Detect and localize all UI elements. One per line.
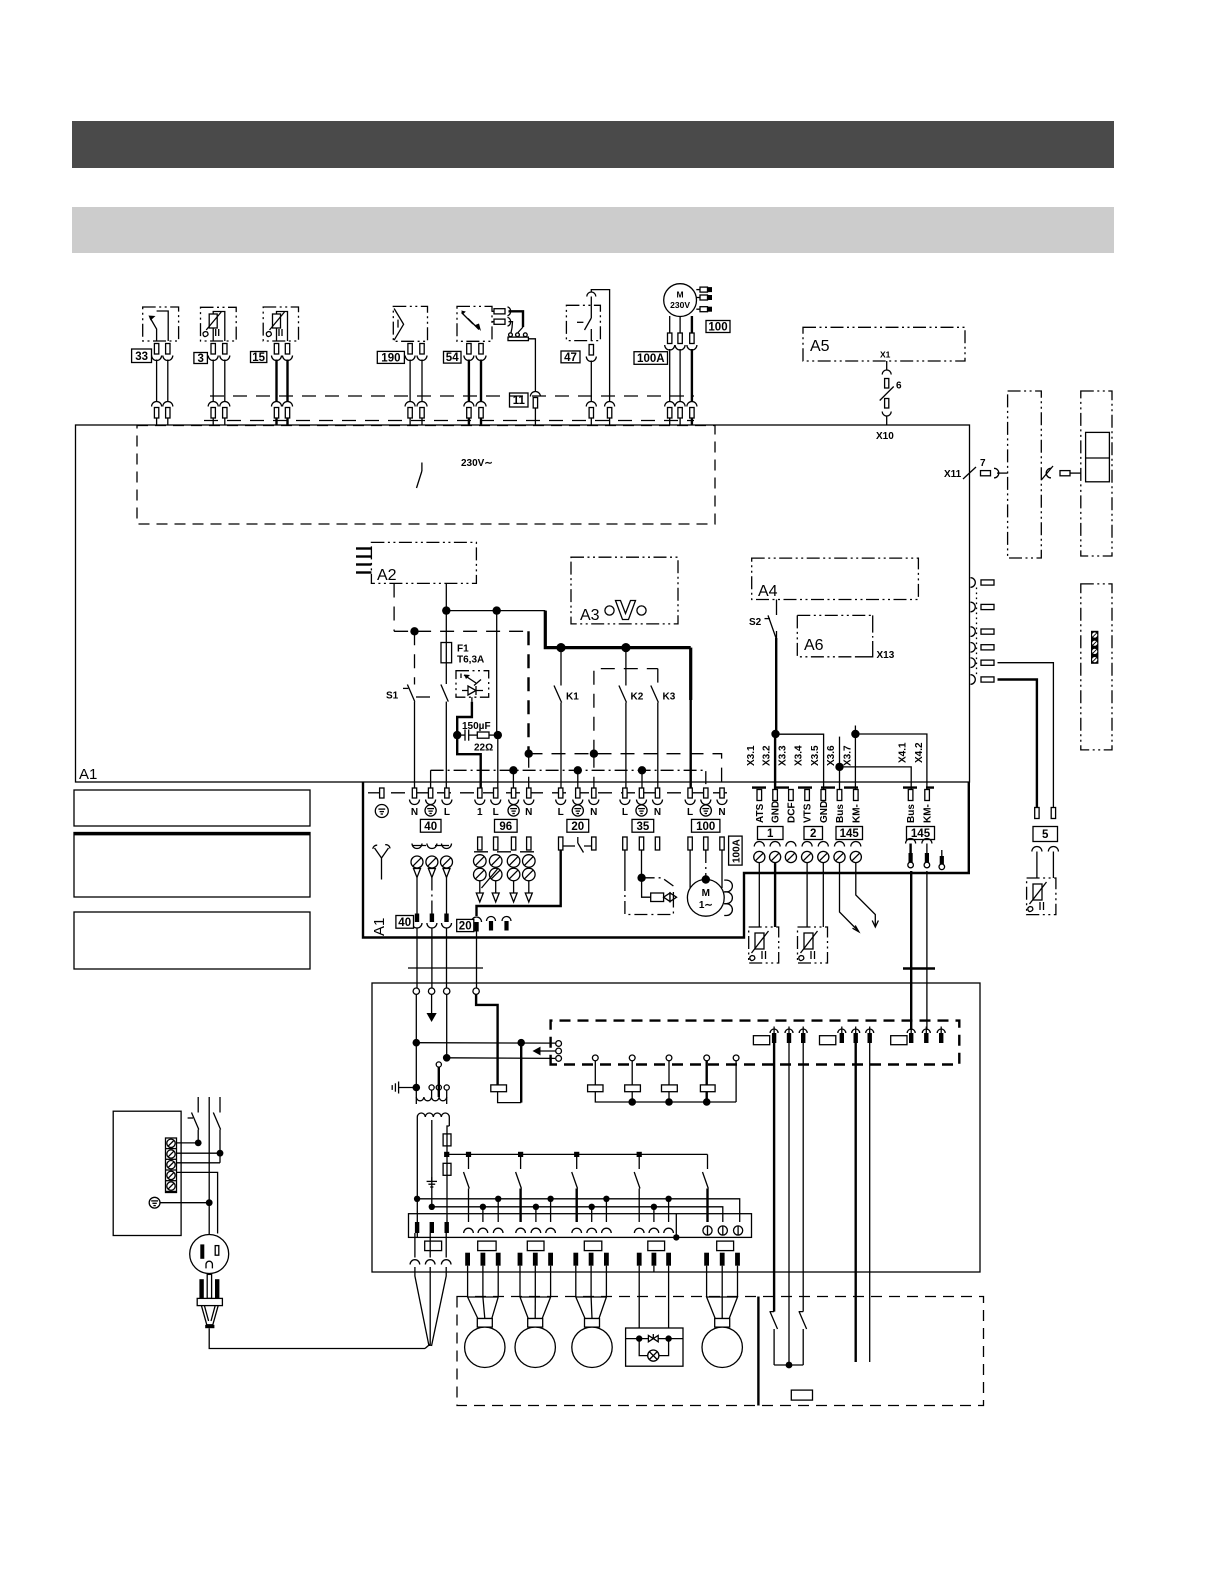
svg-text:230V∼: 230V∼ <box>461 458 493 469</box>
module A4 <box>752 558 919 600</box>
strip left pins <box>415 1222 449 1233</box>
casing boundary dashed lines <box>210 395 694 397</box>
svg-text:7: 7 <box>980 458 986 469</box>
S2 to X3.2 wire <box>775 638 776 791</box>
junction box screws <box>166 1138 177 1193</box>
relay coil A <box>491 1043 521 1103</box>
svg-text:S2: S2 <box>749 617 762 628</box>
svg-text:X3.6: X3.6 <box>826 745 837 766</box>
svg-text:T6,3A: T6,3A <box>457 655 484 666</box>
lower board input terminals <box>413 988 479 994</box>
svg-text:X10: X10 <box>876 431 894 442</box>
connector box 145 right <box>907 827 935 840</box>
wire A2 to F1 line <box>445 584 447 611</box>
external contact b <box>799 1312 807 1365</box>
terminal 20 wire thick <box>476 994 498 1085</box>
svg-text:GND: GND <box>819 801 830 823</box>
pump 1 motor <box>465 1327 505 1367</box>
KM arrow out <box>856 863 879 927</box>
lower connector 20 <box>472 917 482 991</box>
svg-text:N: N <box>654 807 661 818</box>
bus connector group 2 <box>820 1027 874 1045</box>
connector pins 190 <box>405 344 427 426</box>
pump 4 funnel <box>707 1266 738 1327</box>
remote box 1 <box>1008 391 1042 558</box>
KM line down <box>926 871 928 1030</box>
label 20 lower <box>457 919 474 931</box>
svg-text:6: 6 <box>896 381 902 392</box>
lower relay contact 2 <box>516 1154 522 1222</box>
module A3 with logo <box>571 557 678 624</box>
L96 wire <box>497 611 498 788</box>
svg-text:3: 3 <box>197 353 203 365</box>
mains plug <box>197 1274 222 1328</box>
X6 edge connectors <box>971 578 995 685</box>
RC snubber 150uF 22ohm <box>457 702 498 788</box>
svg-text:DCF: DCF <box>786 802 797 823</box>
relay contact K3 <box>651 669 659 788</box>
sensor box 3 (NTC temperature sensor) <box>201 307 237 341</box>
svg-text:150µF: 150µF <box>462 721 491 732</box>
group 100 pump motor <box>687 837 724 916</box>
module A2 <box>356 542 476 584</box>
lower relay contact 4 <box>634 1154 640 1222</box>
strip cups <box>464 1228 674 1233</box>
heavy dashed vertical to N96 <box>527 631 530 788</box>
legend box 3 <box>74 912 310 969</box>
K2-K3 mechanical linkage dashed <box>594 669 658 788</box>
svg-text:L: L <box>622 807 628 818</box>
lower board box <box>372 983 980 1272</box>
fan motor M 230V <box>664 284 712 317</box>
sensor terminal cups and screws <box>754 842 862 863</box>
sensor box 15 (NTC temperature sensor) <box>263 307 298 341</box>
S1 mechanical link dashed <box>416 696 438 698</box>
terminal group 35 top <box>620 788 663 818</box>
svg-text:100: 100 <box>696 821 715 833</box>
X4 connector pin row <box>903 788 934 801</box>
terminal group 40 top <box>410 788 452 818</box>
terminal 40-2 wire with arrow <box>427 994 437 1022</box>
svg-text:L: L <box>493 807 499 818</box>
mains socket face <box>190 1235 229 1274</box>
wire edge row6 to conn 5 thick <box>998 680 1037 808</box>
net to changeover contact bottom <box>447 1057 555 1060</box>
svg-text:X1: X1 <box>880 350 891 360</box>
Bus line down <box>910 871 912 1030</box>
controller box A5 <box>803 327 965 361</box>
link bar <box>774 1364 803 1366</box>
terminal group 100 top <box>685 788 727 818</box>
triac module <box>456 671 489 702</box>
svg-text:N: N <box>411 807 418 818</box>
box 20 <box>567 819 589 832</box>
svg-text:K1: K1 <box>566 692 579 703</box>
spark plug spade connectors <box>492 307 511 326</box>
X3.5 branch <box>776 734 824 791</box>
outdoor sensor box (AF) <box>749 927 779 963</box>
box 35 <box>632 819 654 832</box>
connector box 2 <box>804 827 823 840</box>
label 15 <box>251 352 267 363</box>
X4.1 X4.2 labels <box>898 742 926 763</box>
spare pins <box>487 917 512 931</box>
svg-text:100A: 100A <box>637 353 665 365</box>
terminal name labels ATS GND DCF VTS GND Bus KM <box>755 801 863 823</box>
external module rect <box>791 1390 812 1400</box>
lower relay contact 3 <box>572 1154 578 1222</box>
X11 connector <box>963 467 1008 479</box>
svg-text:20: 20 <box>571 821 584 833</box>
bottom edge pins <box>465 1253 740 1266</box>
svg-text:Bus: Bus <box>835 804 846 823</box>
pump 2 funnel <box>520 1266 551 1327</box>
svg-text:KM-: KM- <box>923 804 934 823</box>
bottom external dashed box <box>457 1297 984 1406</box>
svg-text:54: 54 <box>446 352 459 364</box>
terminal group 20 top <box>556 788 599 818</box>
relay coil C <box>625 1061 669 1102</box>
230V~ dashed enclosure <box>137 426 715 525</box>
svg-text:X4.1: X4.1 <box>898 742 909 763</box>
right 145 cups and pins <box>906 839 945 870</box>
header dark bar <box>72 121 1114 168</box>
legend box 1 <box>74 790 310 826</box>
group 96 output terminals <box>474 837 536 902</box>
label 54 <box>444 351 462 363</box>
relay dashed box <box>551 1021 960 1066</box>
changeover relay contact <box>533 1041 562 1062</box>
earth collector Y <box>373 845 390 880</box>
fuse F1 T6,3A <box>441 611 452 684</box>
header light bar <box>72 207 1114 253</box>
svg-text:N: N <box>590 807 597 818</box>
lower relay contact 5 <box>703 1154 709 1222</box>
svg-text:K2: K2 <box>631 692 644 703</box>
connector pins 47 <box>586 290 614 425</box>
junction box earth <box>149 1197 160 1208</box>
ignition box 54 <box>457 306 492 341</box>
distribution row 1 <box>417 1199 740 1222</box>
mains switch contact 1 <box>188 1113 199 1143</box>
L-feed horizontal net <box>446 610 545 612</box>
chassis ground left <box>392 1082 416 1094</box>
label 11 <box>510 393 529 407</box>
fuse 2 <box>443 1154 451 1222</box>
switch S1 <box>403 631 415 788</box>
terminal group 96 top <box>475 788 534 818</box>
module A6 with X13 <box>797 615 872 656</box>
switch S2 <box>765 600 777 641</box>
cord fan to sockets <box>415 1267 446 1349</box>
svg-text:KM-: KM- <box>851 804 862 823</box>
svg-text:VTS: VTS <box>803 803 814 823</box>
svg-text:M: M <box>702 888 710 899</box>
inner strip junction <box>673 1214 679 1241</box>
earth tap wire <box>427 1120 437 1207</box>
row drop wires <box>483 1199 669 1222</box>
crossing tick <box>408 967 483 969</box>
PE drop wires <box>513 770 642 788</box>
label 40 lower <box>396 916 414 929</box>
svg-text:190: 190 <box>381 352 400 364</box>
motor connector pins <box>665 316 697 425</box>
fuse 1 <box>443 1126 451 1154</box>
svg-text:N: N <box>718 807 725 818</box>
svg-text:X3.2: X3.2 <box>762 745 773 766</box>
group 20 output with switch <box>477 837 597 916</box>
group 40 output terminals <box>411 844 453 914</box>
left output sockets <box>410 1233 451 1265</box>
remote box 2 with display <box>1081 391 1112 556</box>
Bus arrow out <box>840 863 859 932</box>
hot water sensor box <box>1027 878 1056 915</box>
transformer primary <box>416 1062 449 1104</box>
crossing tick <box>903 967 935 969</box>
svg-text:A4: A4 <box>758 583 778 600</box>
100A rotated label <box>729 836 743 865</box>
lower relay contact 1 <box>464 1154 470 1222</box>
svg-text:L: L <box>687 807 693 818</box>
connector X1-X10 stack <box>880 361 894 425</box>
svg-text:1: 1 <box>767 828 774 840</box>
svg-text:11: 11 <box>513 395 526 407</box>
group 35 gas valve <box>623 837 677 915</box>
connector 11 <box>530 392 540 426</box>
svg-text:100A: 100A <box>732 839 743 863</box>
connector 5 cups <box>1032 847 1059 879</box>
svg-text:15: 15 <box>252 352 265 364</box>
sensor box 33 (flow switch) <box>143 307 179 341</box>
PE dash-dot bus <box>431 770 706 788</box>
strip circle terminals <box>703 1226 743 1235</box>
svg-text:X11: X11 <box>944 469 962 480</box>
label 33 <box>132 349 152 363</box>
connector pins 15 <box>272 344 293 426</box>
remote box 3 with terminal strip <box>1081 584 1112 750</box>
svg-text:A1: A1 <box>79 766 97 783</box>
wire edge row5 to conn 5 <box>998 663 1054 807</box>
svg-text:N: N <box>525 807 532 818</box>
bus connector group 3 <box>891 1027 946 1045</box>
svg-text:20: 20 <box>459 921 472 933</box>
legend box 2 <box>74 833 310 898</box>
junction wires <box>177 1143 221 1234</box>
box 96 <box>495 819 518 832</box>
svg-text:A3: A3 <box>580 607 600 624</box>
relay coil B <box>588 1061 633 1102</box>
dashed wire from A2 <box>394 584 528 632</box>
connector box 145 left <box>836 827 863 840</box>
box 40 <box>420 819 441 832</box>
flow sensor box (VF) <box>798 927 828 963</box>
lower connector 40 <box>412 914 452 992</box>
mains feed stubs <box>198 1097 220 1235</box>
neutral dashed bus <box>529 754 722 788</box>
thick main L feed to K contacts <box>545 611 690 788</box>
terminal 40-1 wire <box>415 994 417 1087</box>
svg-text:X3.4: X3.4 <box>794 745 805 766</box>
svg-text:100: 100 <box>708 322 727 334</box>
svg-text:40: 40 <box>398 917 411 929</box>
wire GND to sensor thick <box>774 863 776 927</box>
mains switch contact 2 <box>213 1113 220 1163</box>
svg-text:35: 35 <box>637 821 650 833</box>
svg-text:L: L <box>558 807 564 818</box>
X3.1..X3.7 labels <box>746 745 854 766</box>
relay coil drive circles <box>592 1055 739 1061</box>
pump 2 motor <box>515 1327 555 1367</box>
svg-text:2: 2 <box>810 828 816 840</box>
svg-text:X4.2: X4.2 <box>914 742 925 763</box>
group1 wires down <box>774 1043 803 1365</box>
pump 1 funnel <box>468 1266 499 1327</box>
svg-text:1: 1 <box>477 807 483 818</box>
main contact on L line <box>441 685 448 789</box>
X3.6 wire and branch to X4 Bus <box>840 737 912 792</box>
svg-text:K3: K3 <box>663 692 676 703</box>
spark electrode <box>508 311 535 391</box>
connector between boxes <box>1041 466 1081 480</box>
sensor box 190 <box>393 306 427 341</box>
svg-text:145: 145 <box>840 828 860 840</box>
svg-text:A1: A1 <box>371 918 388 936</box>
terminal 40-3 wire <box>446 994 448 1057</box>
svg-text:A2: A2 <box>377 567 397 584</box>
svg-text:ATS: ATS <box>755 803 766 823</box>
connector housings <box>425 1241 734 1251</box>
relay coil E <box>700 1061 736 1102</box>
external contact a <box>770 1312 778 1365</box>
relay contact K1 <box>554 648 562 788</box>
connector pins 33 <box>152 344 173 426</box>
right group Bus KM labels <box>906 804 934 823</box>
X3 connector pin row <box>752 788 864 801</box>
pump 4 motor <box>702 1327 742 1367</box>
svg-text:A6: A6 <box>804 637 824 654</box>
terminal box A1 (lower compartment, thick) <box>363 782 969 938</box>
svg-text:X3.5: X3.5 <box>810 745 821 766</box>
svg-text:S1: S1 <box>386 691 399 702</box>
terminal box pin row dashed line <box>368 792 731 794</box>
valve lamp box wires <box>639 1266 668 1328</box>
svg-text:F1: F1 <box>457 644 469 655</box>
mains junction box <box>113 1111 181 1235</box>
svg-text:X13: X13 <box>877 650 895 661</box>
svg-text:X3.1: X3.1 <box>746 745 757 766</box>
contact supply bus <box>447 1153 708 1155</box>
svg-text:GND: GND <box>771 801 782 823</box>
main board A1 outline <box>76 425 970 782</box>
svg-text:230V: 230V <box>670 300 690 310</box>
group2 wires down <box>856 1043 870 1362</box>
svg-text:L: L <box>444 807 450 818</box>
svg-text:A5: A5 <box>810 338 830 355</box>
relay contact K2 <box>619 648 627 788</box>
wire GND2 to sensor <box>822 863 824 927</box>
connector pins 54 <box>464 344 486 426</box>
svg-text:22Ω: 22Ω <box>474 743 493 754</box>
label 47 <box>561 351 580 363</box>
X3.7 wire and branch to X4 KM <box>855 726 927 792</box>
node A2 dashed junction <box>410 627 418 635</box>
pump 3 motor <box>572 1327 612 1367</box>
spare tap wire <box>735 1061 737 1102</box>
svg-text:33: 33 <box>135 351 148 363</box>
box 100 <box>692 819 720 832</box>
label 3 <box>194 353 208 364</box>
label 190 <box>377 351 404 363</box>
wire VTS to sensor <box>806 863 808 927</box>
switch box 47 <box>566 305 600 340</box>
pump 3 funnel <box>576 1266 607 1327</box>
earth wire <box>160 1202 209 1204</box>
transformer secondary <box>417 1113 449 1237</box>
relay coil D <box>662 1061 707 1102</box>
svg-text:X3.3: X3.3 <box>777 745 788 766</box>
label 100A <box>634 352 668 365</box>
PE terminal <box>375 788 388 818</box>
connector pins 3 <box>208 344 230 426</box>
svg-text:40: 40 <box>424 821 437 833</box>
distribution row 2 <box>432 1207 723 1222</box>
connector 5 pins <box>1035 808 1056 819</box>
mains switch symbol in 230V box <box>421 463 423 472</box>
svg-text:5: 5 <box>1042 829 1049 841</box>
divider thick <box>757 1297 759 1406</box>
label 100 <box>706 321 730 333</box>
svg-text:Bus: Bus <box>906 804 917 823</box>
wire ATS to sensor <box>758 863 760 927</box>
output terminal strip <box>409 1214 752 1238</box>
connector box 1 <box>758 827 784 840</box>
mains cord <box>209 1328 425 1348</box>
svg-text:47: 47 <box>564 352 577 364</box>
heater coil arcs <box>724 880 732 915</box>
svg-text:X3.7: X3.7 <box>842 745 853 766</box>
svg-text:M: M <box>677 290 684 300</box>
connector box 5 <box>1033 827 1058 842</box>
svg-text:1∼: 1∼ <box>699 900 713 911</box>
net to changeover contact top <box>416 1042 556 1044</box>
valve lamp box <box>626 1328 683 1366</box>
svg-text:96: 96 <box>499 821 512 833</box>
bus connector group 1 <box>753 1027 807 1045</box>
